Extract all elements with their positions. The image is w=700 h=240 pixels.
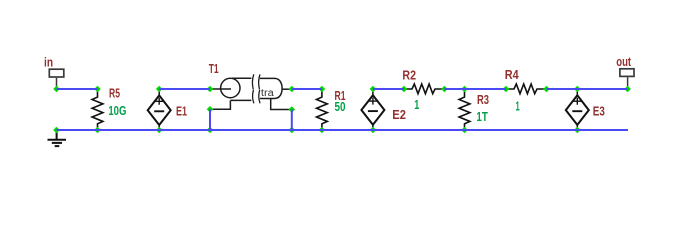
node ground xyxy=(53,127,60,134)
vcvs E1 xyxy=(148,89,171,130)
T1 primary box top xyxy=(232,77,251,79)
node T1 secondary return xyxy=(289,106,296,113)
vcvs E3 xyxy=(566,89,589,130)
transformer T1 xyxy=(210,74,292,109)
port in xyxy=(49,69,64,89)
wire E2 to R2 left xyxy=(373,88,404,90)
svg-text:T1: T1 xyxy=(209,62,219,76)
node E3 top xyxy=(574,86,581,93)
T1 primary box bottom xyxy=(230,99,251,101)
resistor R4 xyxy=(506,84,547,94)
T1 primary bottom lead xyxy=(210,100,230,109)
node R3 bottom xyxy=(461,127,468,134)
wire T1 right pin to R1 xyxy=(292,88,322,90)
T1 left pin stub xyxy=(210,88,231,90)
resistor R1 xyxy=(317,89,328,130)
node E2 top xyxy=(370,86,377,93)
svg-text:1: 1 xyxy=(414,98,419,112)
svg-text:R5: R5 xyxy=(109,86,120,100)
node R3 top xyxy=(461,86,468,93)
node E2 bottom xyxy=(370,127,377,134)
wire in to R5 xyxy=(57,88,98,90)
wire E1 to T1 left pin xyxy=(159,88,210,90)
T1 secondary D shape xyxy=(260,78,282,98)
node T1 primary return xyxy=(207,106,214,113)
T1 core arc right xyxy=(259,74,260,103)
svg-text:1T: 1T xyxy=(476,110,488,124)
node R4 left xyxy=(503,86,510,93)
T1 right pin stub xyxy=(282,88,292,90)
T1 secondary bottom lead xyxy=(271,99,292,110)
svg-text:50: 50 xyxy=(335,100,346,114)
svg-text:E2: E2 xyxy=(392,108,406,122)
node R5 bottom xyxy=(94,127,101,134)
node in port xyxy=(53,86,60,93)
svg-text:tra: tra xyxy=(261,88,274,99)
T1 core arc left xyxy=(252,74,253,103)
svg-text:10G: 10G xyxy=(108,104,126,118)
node E3 bottom xyxy=(574,127,581,134)
resistor R3 xyxy=(459,89,470,130)
svg-text:E3: E3 xyxy=(593,105,605,119)
svg-text:R2: R2 xyxy=(402,69,416,83)
node R2 right xyxy=(441,86,448,93)
vcvs E2 xyxy=(361,89,384,130)
node E1 top xyxy=(156,86,163,93)
resistor R5 xyxy=(92,89,103,130)
ground xyxy=(48,130,67,146)
node T1 secondary return rail xyxy=(289,127,296,134)
svg-text:R4: R4 xyxy=(505,68,519,82)
node T1 primary return rail xyxy=(207,127,214,134)
svg-text:in: in xyxy=(44,56,53,70)
node R5 top xyxy=(94,86,101,93)
node R1 bottom xyxy=(319,127,326,134)
node T1 primary pin xyxy=(207,86,214,93)
node R2 left xyxy=(401,86,408,93)
wire bottom rail xyxy=(57,129,629,131)
svg-text:out: out xyxy=(616,55,631,69)
port out xyxy=(620,69,634,89)
node T1 secondary pin xyxy=(289,86,296,93)
wire T1 left secondary drop xyxy=(209,109,211,130)
node R4 right xyxy=(543,86,550,93)
node R1 top xyxy=(319,86,326,93)
node out port xyxy=(624,86,631,93)
resistor R2 xyxy=(404,84,444,94)
wire R2 right to R4 left xyxy=(444,88,506,90)
node E1 bottom xyxy=(156,127,163,134)
wire top rail right (R4 right to out) xyxy=(547,88,628,90)
svg-text:1: 1 xyxy=(516,99,520,113)
svg-text:R3: R3 xyxy=(477,93,489,107)
svg-text:E1: E1 xyxy=(176,105,187,119)
T1 primary circle xyxy=(221,78,240,97)
wire T1 right secondary drop xyxy=(291,110,293,131)
